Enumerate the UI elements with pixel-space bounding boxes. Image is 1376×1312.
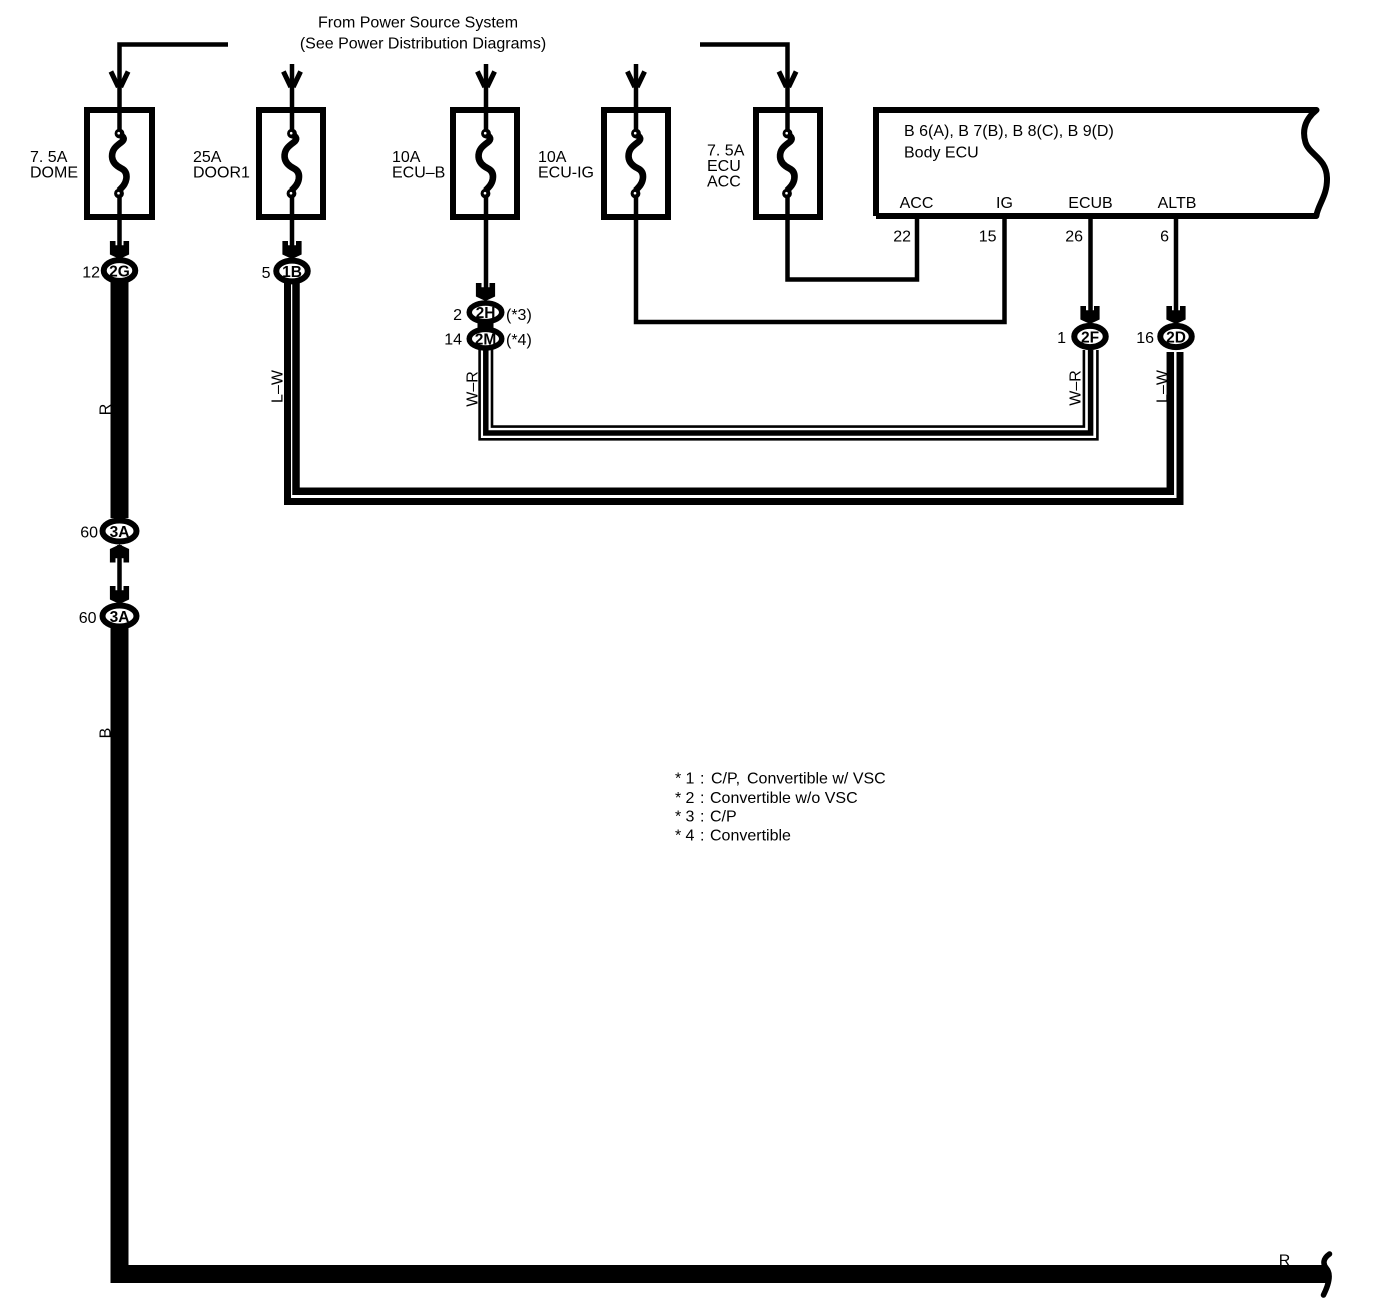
svg-text:*4:Convertible: *4:Convertible bbox=[675, 828, 791, 845]
svg-text:R: R bbox=[98, 404, 115, 416]
svg-text:2M: 2M bbox=[475, 332, 497, 349]
svg-text:DOOR1: DOOR1 bbox=[193, 165, 250, 182]
svg-text:W–R: W–R bbox=[465, 371, 482, 407]
svg-text:10A: 10A bbox=[538, 149, 567, 166]
svg-text:2D: 2D bbox=[1166, 330, 1186, 347]
svg-text:10A: 10A bbox=[392, 149, 421, 166]
svg-text:B 6(A), B 7(B), B 8(C), B 9(D): B 6(A), B 7(B), B 8(C), B 9(D) bbox=[904, 123, 1114, 140]
svg-text:ECU: ECU bbox=[707, 158, 741, 175]
svg-text:ECU-IG: ECU-IG bbox=[538, 165, 594, 182]
svg-text:From Power Source System: From Power Source System bbox=[318, 15, 518, 32]
svg-text:60: 60 bbox=[79, 610, 97, 627]
svg-text:R: R bbox=[1279, 1252, 1291, 1269]
svg-text:B: B bbox=[98, 728, 115, 739]
svg-text:2: 2 bbox=[453, 307, 462, 324]
svg-text:ECUB: ECUB bbox=[1068, 195, 1112, 212]
svg-text:2F: 2F bbox=[1081, 330, 1099, 347]
svg-text:L–W: L–W bbox=[270, 369, 287, 403]
svg-text:IG: IG bbox=[996, 195, 1013, 212]
svg-text:22: 22 bbox=[893, 229, 911, 246]
svg-text:5: 5 bbox=[262, 265, 271, 282]
svg-text:7. 5A: 7. 5A bbox=[30, 149, 68, 166]
svg-text:25A: 25A bbox=[193, 149, 222, 166]
svg-text:*2:Convertible w/o VSC: *2:Convertible w/o VSC bbox=[675, 790, 858, 807]
svg-text:W–R: W–R bbox=[1068, 370, 1085, 406]
svg-text:L–W: L–W bbox=[1155, 369, 1172, 403]
svg-text:6: 6 bbox=[1160, 229, 1169, 246]
svg-text:2G: 2G bbox=[109, 264, 130, 281]
svg-text:(See Power Distribution Diagra: (See Power Distribution Diagrams) bbox=[300, 36, 546, 53]
svg-text:(*3): (*3) bbox=[506, 307, 532, 324]
svg-text:ALTB: ALTB bbox=[1158, 195, 1197, 212]
svg-text:15: 15 bbox=[979, 229, 997, 246]
svg-text:26: 26 bbox=[1065, 229, 1083, 246]
svg-text:Body ECU: Body ECU bbox=[904, 145, 979, 162]
svg-text:ACC: ACC bbox=[707, 174, 741, 191]
svg-text:2H: 2H bbox=[476, 305, 496, 322]
svg-text:ACC: ACC bbox=[900, 195, 934, 212]
svg-text:12: 12 bbox=[82, 265, 100, 282]
svg-text:16: 16 bbox=[1136, 330, 1154, 347]
svg-text:7. 5A: 7. 5A bbox=[707, 143, 745, 160]
svg-text:DOME: DOME bbox=[30, 165, 78, 182]
svg-text:60: 60 bbox=[80, 525, 98, 542]
svg-text:1B: 1B bbox=[282, 264, 302, 281]
svg-text:3A: 3A bbox=[110, 524, 130, 541]
svg-text:ECU–B: ECU–B bbox=[392, 165, 445, 182]
svg-text:3A: 3A bbox=[110, 609, 130, 626]
svg-text:1: 1 bbox=[1057, 330, 1066, 347]
svg-text:(*4): (*4) bbox=[506, 332, 532, 349]
svg-text:14: 14 bbox=[444, 332, 462, 349]
